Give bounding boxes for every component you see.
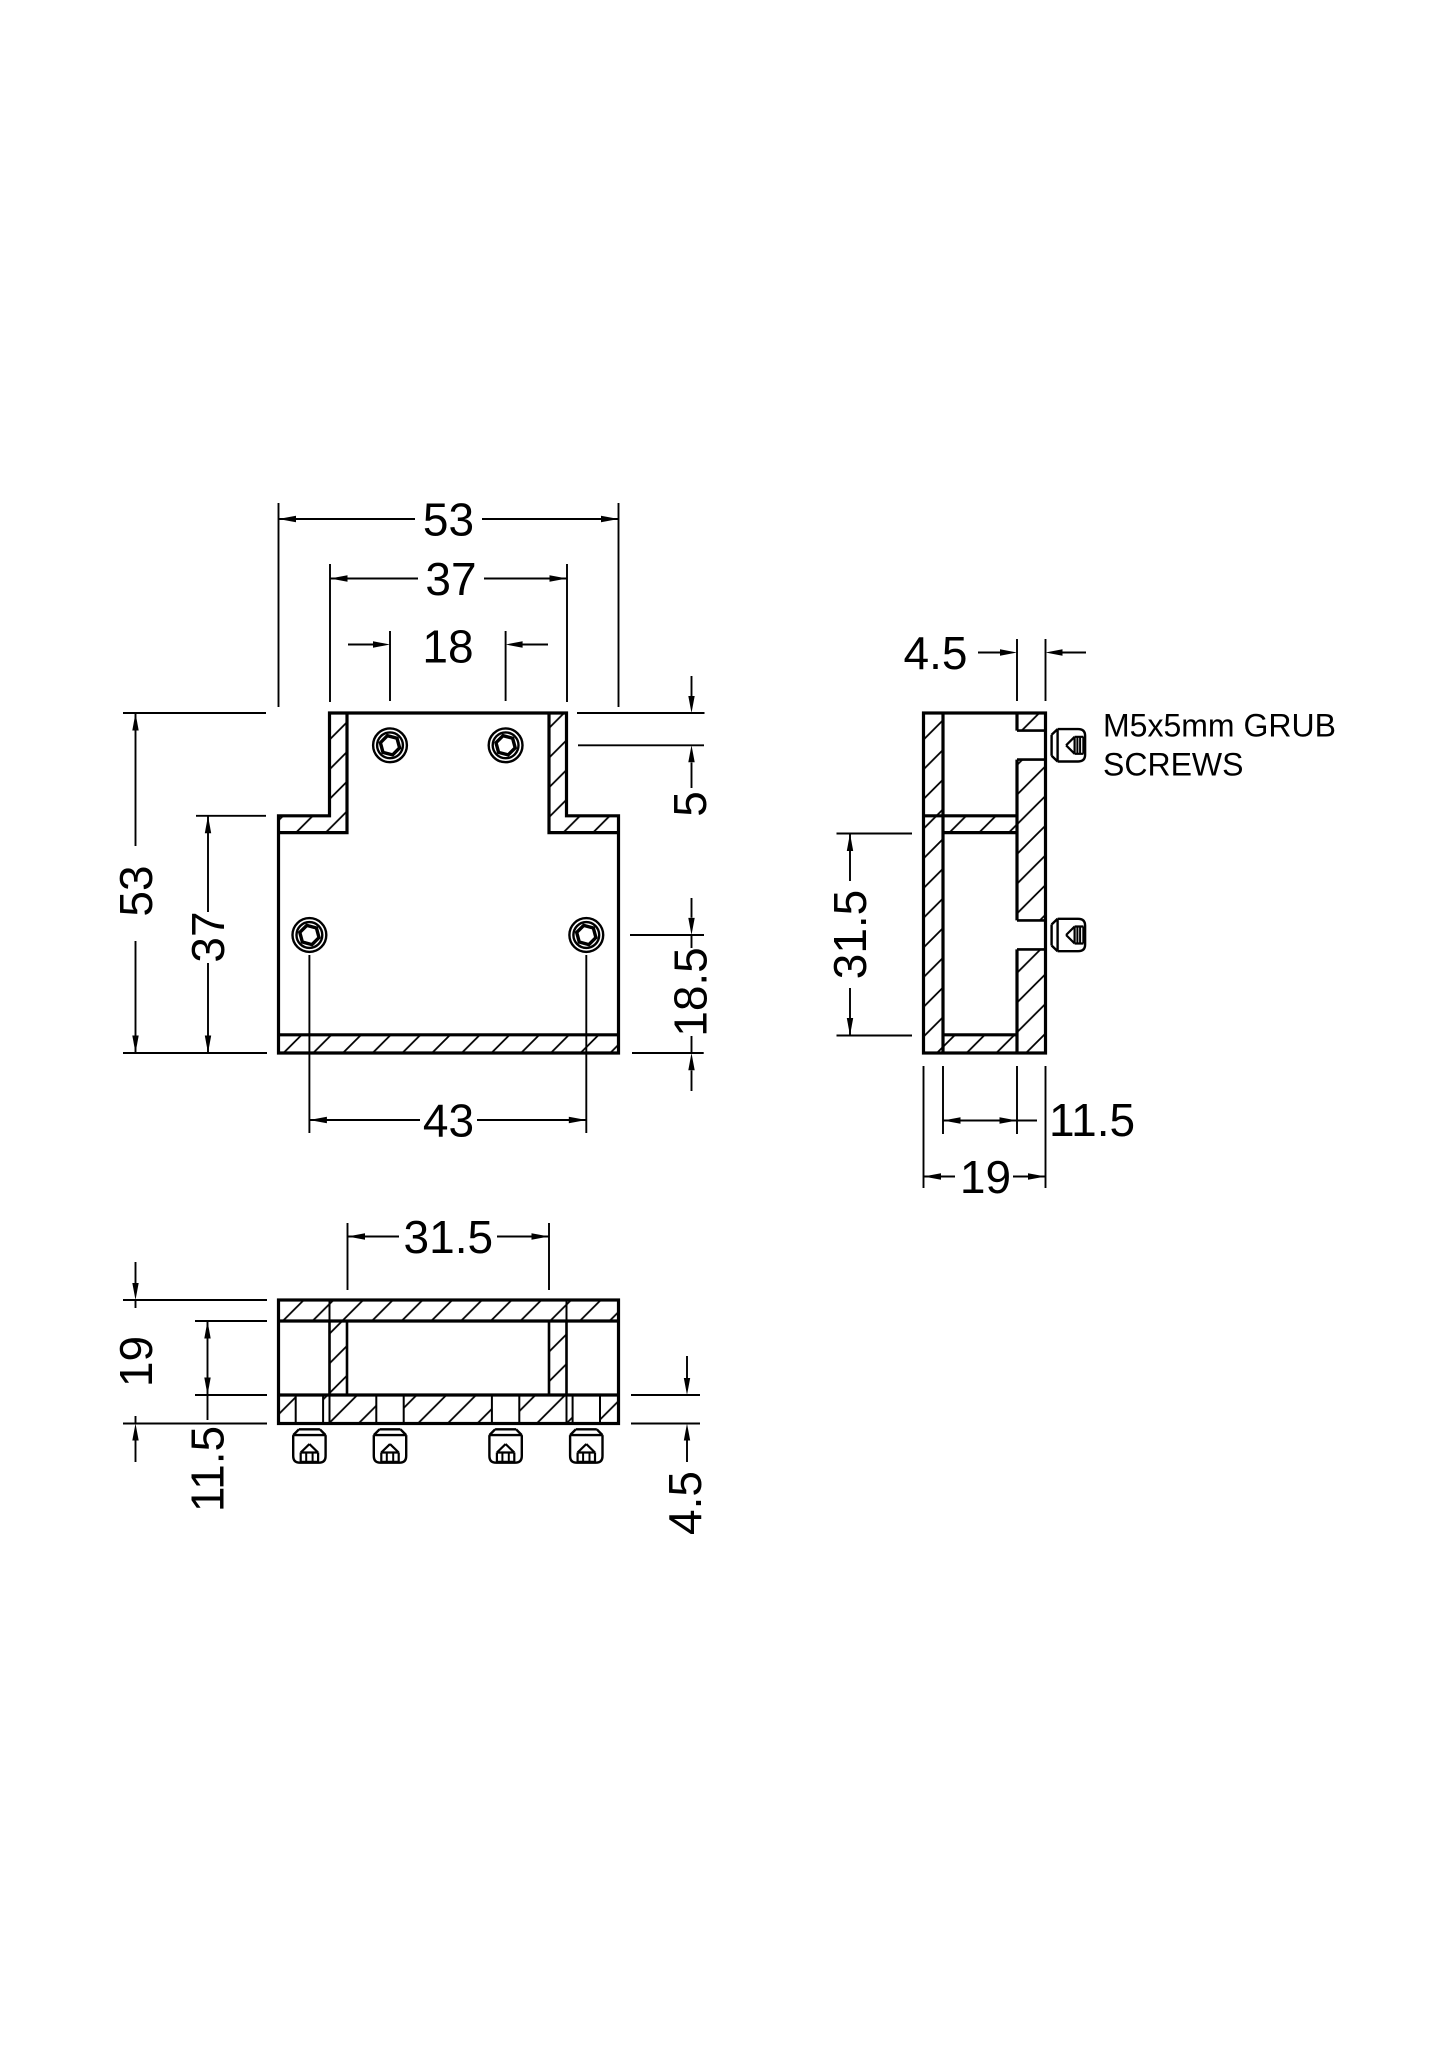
bottom view outline xyxy=(279,1300,619,1424)
svg-text:11.5: 11.5 xyxy=(1049,1094,1135,1146)
grub screw head S1 (top left) xyxy=(373,728,407,762)
side view right wall hatch (with screw holes) xyxy=(1017,713,1046,1053)
dimension 11.5 (bottom view cavity depth) xyxy=(195,1321,267,1420)
dimension 37 (front top neck width) xyxy=(330,564,567,702)
svg-text:53: 53 xyxy=(423,493,474,545)
bottom view left inner wall hatch xyxy=(330,1321,348,1395)
dimension 53 (front left height) xyxy=(123,713,267,1053)
svg-text:19: 19 xyxy=(110,1336,162,1387)
bottom view grub screw 1 xyxy=(293,1429,325,1462)
side view left wall inner line xyxy=(941,713,944,1053)
side view grub screw 2 xyxy=(1052,919,1086,951)
grub screw head S4 (bottom right) xyxy=(569,918,603,952)
bottom view grub screw 4 xyxy=(570,1429,602,1462)
dimension 19 (bottom view height) xyxy=(123,1262,267,1462)
bottom view right inner wall lines xyxy=(549,1321,567,1395)
bottom view top slab hatch xyxy=(279,1300,619,1321)
svg-text:53: 53 xyxy=(110,865,162,916)
front view part outline xyxy=(279,713,619,1053)
front view bottom wall top line xyxy=(279,1033,619,1036)
side view grub screw hole 2 lines xyxy=(1017,920,1046,949)
dimension 18 (front top screw spacing) xyxy=(348,631,548,701)
front view left wall inner boundary xyxy=(279,713,348,833)
svg-text:37: 37 xyxy=(425,553,476,605)
dimension 37 (front left body height) xyxy=(196,816,266,1053)
dimension 43 (front bottom screw spacing) xyxy=(309,955,586,1133)
svg-text:5: 5 xyxy=(664,791,716,817)
svg-text:31.5: 31.5 xyxy=(404,1211,494,1263)
front view left wall section hatch xyxy=(279,713,348,833)
front view right wall inner boundary xyxy=(549,713,619,833)
bottom view neck wall edges through bottom strip xyxy=(330,1395,567,1424)
side view outline xyxy=(924,713,1046,1053)
side view flange slab lines xyxy=(924,816,1018,833)
dimension 4.5 (bottom view bottom wall) xyxy=(631,1356,700,1462)
dimension 11.5 (side bottom inner width) xyxy=(924,1066,1046,1188)
grub screw head S3 (bottom left) xyxy=(293,918,327,952)
svg-text:43: 43 xyxy=(423,1094,474,1146)
svg-text:4.5: 4.5 xyxy=(659,1471,711,1535)
bottom view grub screw 3 xyxy=(489,1429,521,1462)
bottom view neck wall edges through top slab xyxy=(330,1300,567,1321)
bottom view grub screw 2 xyxy=(374,1429,406,1462)
svg-text:31.5: 31.5 xyxy=(824,890,876,980)
svg-text:11.5: 11.5 xyxy=(181,1426,233,1512)
svg-text:18.5: 18.5 xyxy=(664,947,716,1037)
side view left wall hatch xyxy=(924,713,944,1053)
side view bottom slab hatch xyxy=(943,1035,1017,1053)
bottom view screw hole gap boundaries xyxy=(296,1395,600,1424)
svg-text:M5x5mm GRUB: M5x5mm GRUB xyxy=(1103,708,1336,744)
svg-text:18: 18 xyxy=(422,620,473,672)
dimension 31.5 (side left inner height) xyxy=(837,834,913,1036)
side view right wall inner line xyxy=(1015,713,1018,1053)
bottom view top slab bottom line xyxy=(279,1319,619,1322)
svg-text:19: 19 xyxy=(960,1151,1011,1203)
svg-text:SCREWS: SCREWS xyxy=(1103,747,1243,783)
bottom view left inner wall lines xyxy=(330,1321,348,1395)
bottom view right inner wall hatch xyxy=(549,1321,567,1395)
front view bottom wall section hatch xyxy=(279,1035,619,1053)
svg-text:4.5: 4.5 xyxy=(904,627,968,679)
bottom view bottom strip top line xyxy=(279,1393,619,1396)
side view grub screw 1 xyxy=(1052,729,1086,761)
dimension 5 (front right, top edge to screw line) xyxy=(577,676,705,788)
grub screw head S2 (top right) xyxy=(489,728,523,762)
side view bottom slab top line xyxy=(943,1033,1017,1036)
front view right wall section hatch xyxy=(549,713,619,833)
bottom view bottom strip hatch with screw hole gaps xyxy=(279,1395,619,1424)
dimension 4.5 (side top wall thickness) xyxy=(978,639,1086,701)
side view grub screw hole 1 lines xyxy=(1017,731,1046,760)
dimension 53 (front top width) xyxy=(279,503,619,707)
svg-text:37: 37 xyxy=(182,911,234,962)
side view flange slab hatch xyxy=(943,816,1017,833)
dimension 18.5 (front right, screw line to bottom) xyxy=(630,898,704,1091)
dimension 31.5 (bottom view inner width) xyxy=(348,1223,550,1290)
dimension 19 (side bottom width) xyxy=(924,1173,1046,1179)
